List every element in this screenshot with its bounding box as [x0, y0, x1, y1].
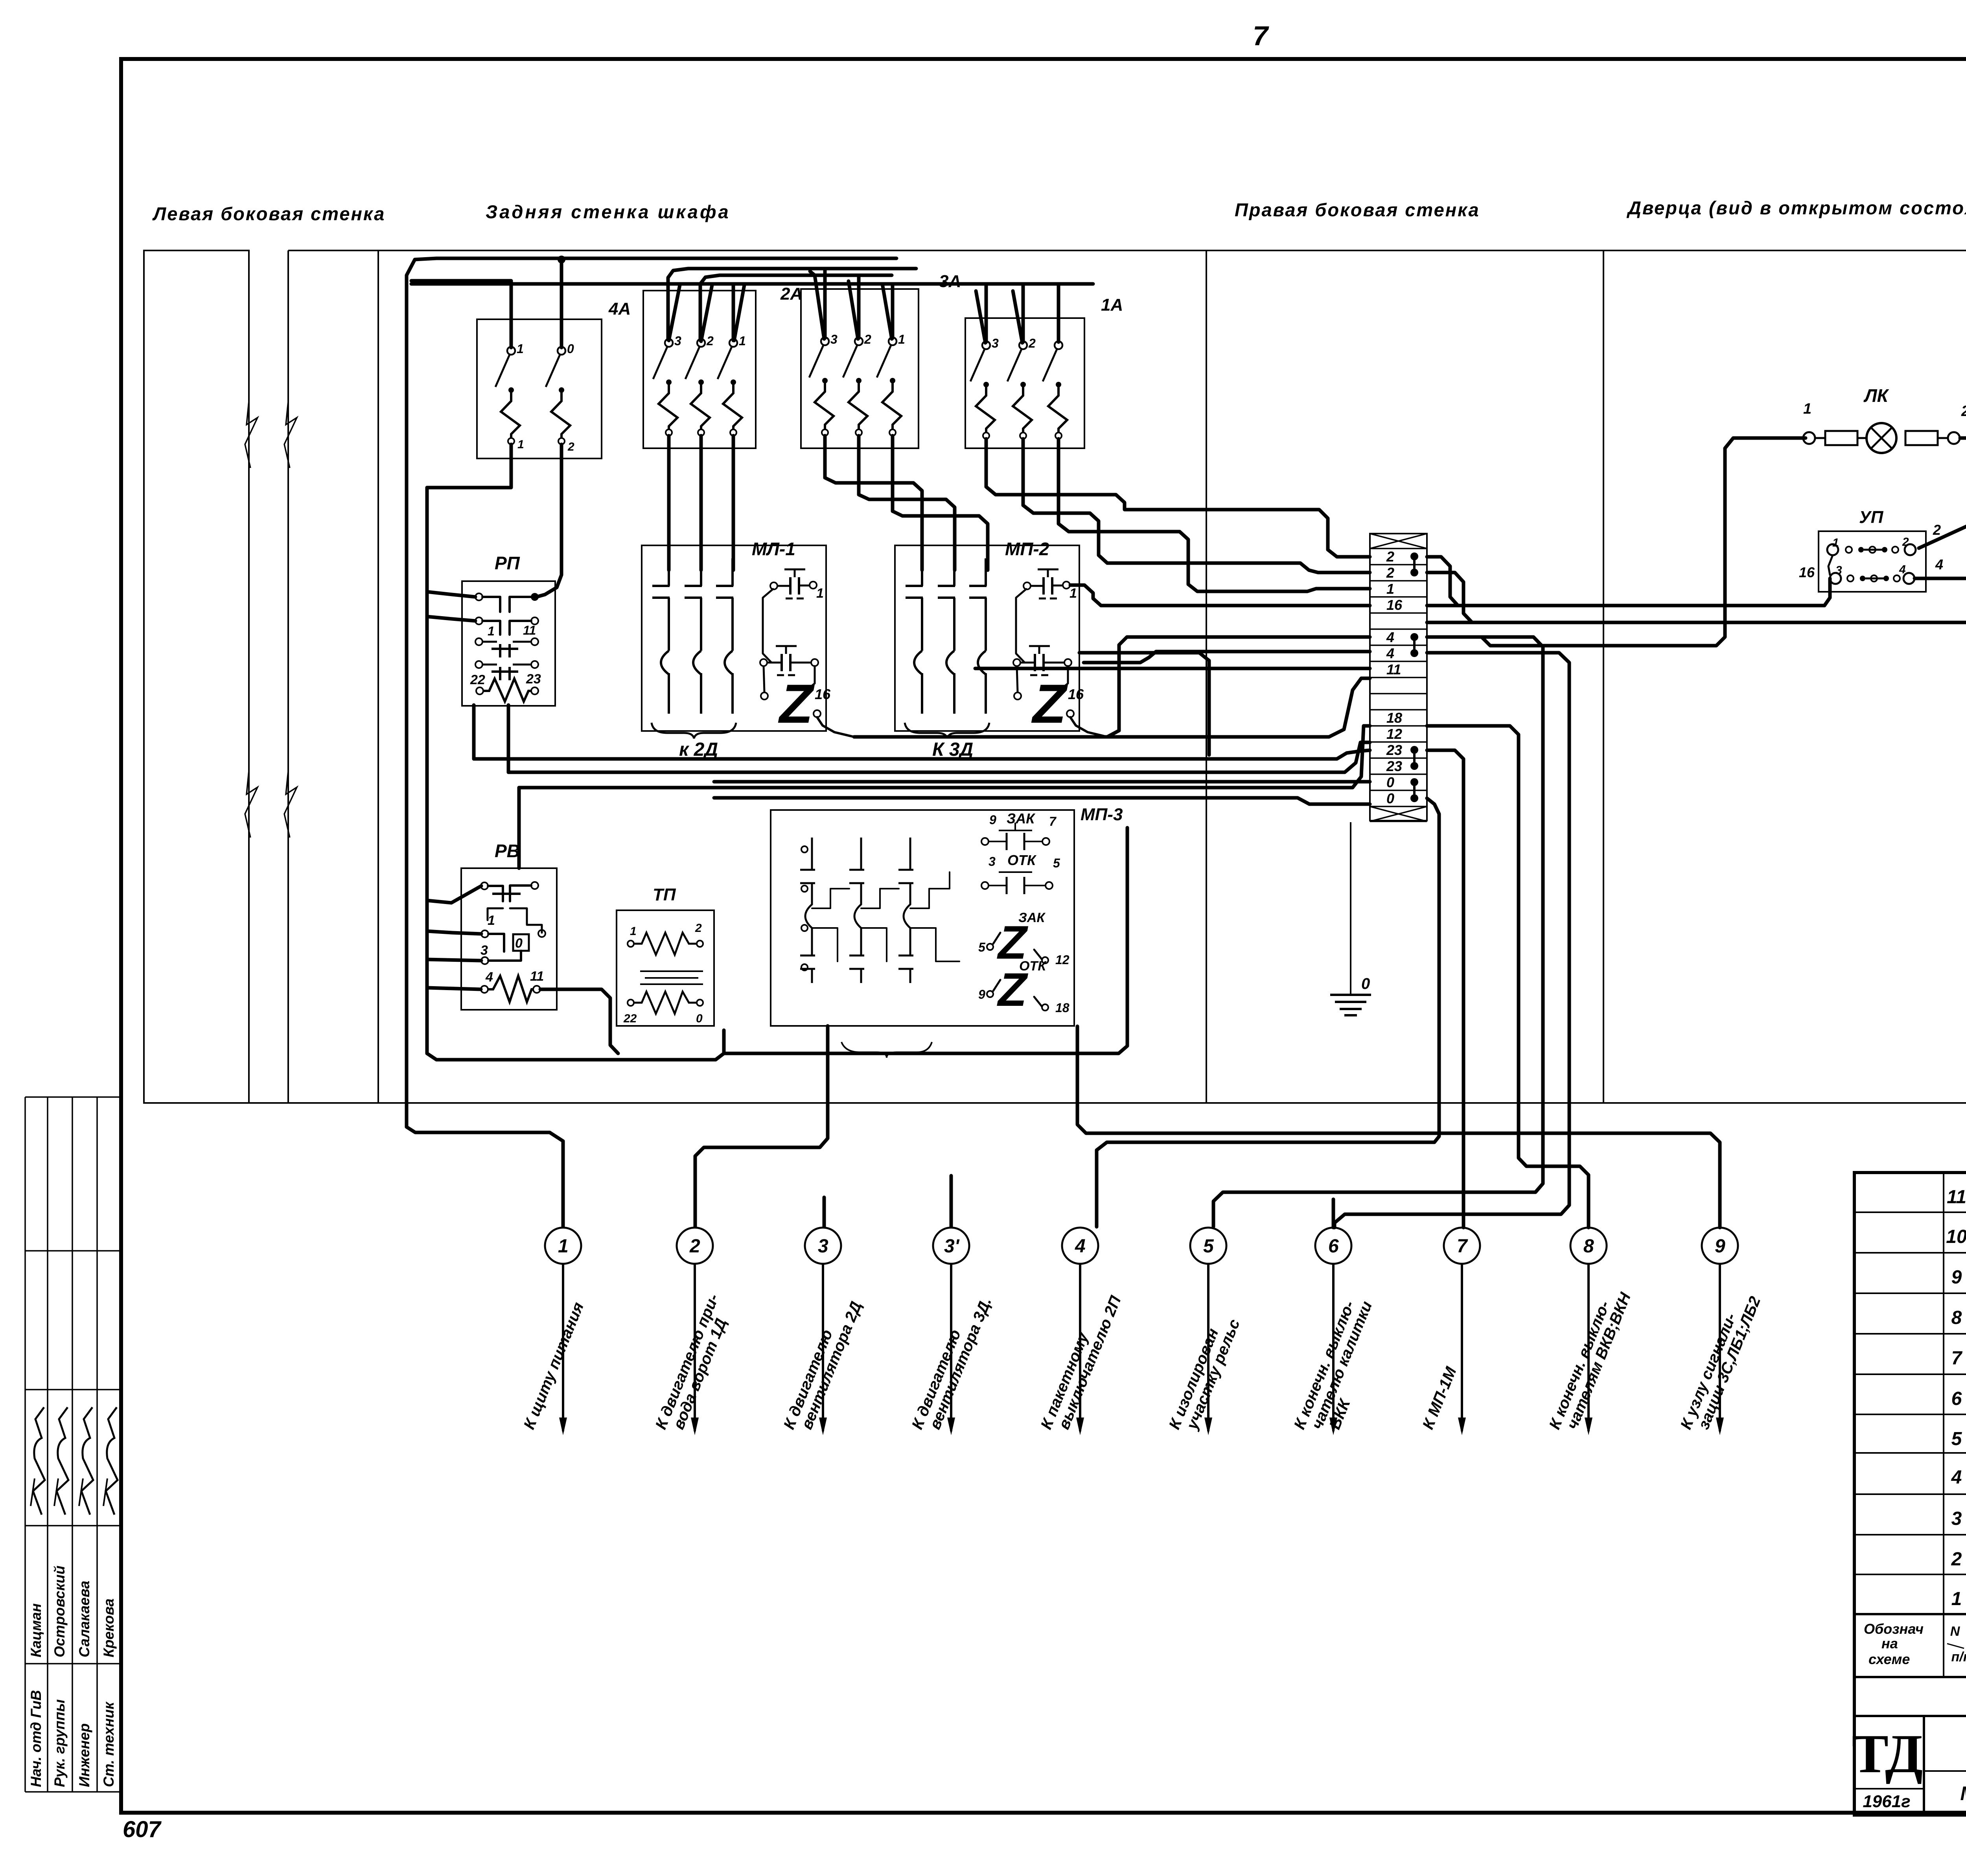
wire 3A-3 to MP2 — [825, 436, 922, 570]
panels top line — [288, 250, 1966, 251]
svg-text:3: 3 — [992, 336, 999, 350]
wire strip row2 hook — [1427, 557, 1457, 605]
svg-text:2: 2 — [567, 440, 574, 453]
wire RP to bus — [472, 705, 476, 759]
node 8 cable circle — [1570, 1228, 1607, 1264]
panel edge break mark — [245, 401, 258, 468]
svg-text:0: 0 — [1361, 975, 1370, 992]
wire 2A-2 to ML1 — [700, 436, 703, 570]
node 3' lead with arrow — [950, 1264, 952, 1431]
wire 2A pole3 slant — [669, 285, 680, 341]
svg-text:3А: 3А — [939, 272, 961, 291]
wire 4A pole0 feed — [560, 260, 563, 348]
node 6 lead with arrow — [1332, 1264, 1335, 1431]
node 4 cable circle — [1062, 1228, 1098, 1264]
svg-text:7: 7 — [1253, 20, 1269, 51]
svg-text:Дверца (вид в открытом состоян: Дверца (вид в открытом состоянии) — [1626, 197, 1966, 218]
svg-text:УП: УП — [1859, 508, 1884, 527]
RV weave elbow — [510, 908, 542, 933]
circuit breaker 2A — [643, 291, 756, 448]
svg-text:1961г: 1961г — [1863, 1792, 1910, 1811]
contactor МЛ-1 — [642, 545, 826, 731]
svg-text:4: 4 — [1951, 1467, 1962, 1488]
svg-text:10: 10 — [1946, 1226, 1966, 1247]
svg-text:22: 22 — [623, 1012, 637, 1025]
bus to strip bottom right — [724, 828, 1127, 1053]
wire 4A pole1 feed — [411, 281, 511, 348]
svg-text:1: 1 — [739, 334, 746, 348]
wire 1A-2 to strip row 2b — [1023, 439, 1370, 573]
wire bus to RV 4 — [427, 988, 481, 989]
wire bus to RP r2 — [427, 617, 475, 621]
svg-text:5: 5 — [1053, 856, 1060, 870]
svg-text:607: 607 — [123, 1817, 162, 1842]
svg-text:4: 4 — [1075, 1236, 1086, 1257]
svg-text:ТП: ТП — [653, 885, 676, 904]
svg-text:МП-2: МП-2 — [1005, 539, 1049, 559]
TP core line — [645, 977, 698, 979]
node 3 lead with arrow — [822, 1264, 824, 1431]
brace under MP-3 — [841, 1042, 932, 1058]
wire bus to RP r1 — [427, 592, 475, 597]
svg-text:0: 0 — [1386, 790, 1394, 806]
svg-text:23: 23 — [1386, 758, 1402, 774]
svg-text:Монтажная схема шкафа управ: Монтажная схема шкафа управления ШУ — [1960, 1782, 1966, 1804]
svg-text:МП-3: МП-3 — [1081, 805, 1123, 824]
title divider main — [1924, 1770, 1966, 1772]
svg-text:4: 4 — [1386, 629, 1394, 645]
svg-text:9: 9 — [1951, 1267, 1962, 1288]
svg-text:1: 1 — [517, 342, 524, 356]
svg-text:8: 8 — [1951, 1307, 1962, 1328]
wire strip to node 5 — [1213, 637, 1543, 1227]
svg-text:16: 16 — [1068, 686, 1084, 702]
wire 3A-2 to MP2 — [859, 436, 955, 570]
wire 3A pole1 slant — [882, 284, 892, 339]
svg-text:5: 5 — [978, 940, 986, 954]
wire strip row2b hook — [1427, 573, 1471, 622]
RV latch Yu — [513, 934, 529, 951]
svg-text:1: 1 — [558, 1236, 569, 1257]
TP secondary resistor — [634, 992, 697, 1014]
brace К 3Д — [905, 723, 989, 738]
wire 2A pole1 slant — [734, 285, 744, 341]
svg-text:к 2Д: к 2Д — [679, 739, 718, 760]
wire stub to node 3p — [950, 1176, 953, 1227]
wire strip to node 7 — [1427, 750, 1463, 1228]
svg-text:6: 6 — [1951, 1388, 1962, 1409]
contactor MP-3 — [771, 810, 1074, 1026]
svg-text:16: 16 — [1799, 564, 1815, 580]
wire 4A bottom 1 — [427, 444, 511, 488]
bus row18 — [519, 726, 1370, 788]
svg-text:23: 23 — [526, 672, 541, 687]
back wall panel left edge — [287, 250, 289, 1103]
wire 2A-3 to ML1 — [667, 436, 671, 570]
svg-text:Z: Z — [778, 673, 815, 735]
wire MP2 coil down — [1079, 653, 1209, 755]
TP core line — [640, 983, 703, 985]
svg-text:Рук. группы: Рук. группы — [52, 1699, 68, 1787]
panel edge break mark — [245, 771, 258, 838]
MP-3 inner link — [910, 872, 950, 908]
svg-text:22: 22 — [470, 672, 485, 687]
svg-text:1: 1 — [630, 925, 637, 938]
wire bus to RV 1 — [427, 931, 481, 934]
wire main trunk left+top — [407, 258, 896, 1127]
svg-text:1: 1 — [898, 332, 905, 346]
svg-text:Задняя стенка шкафа: Задняя стенка шкафа — [486, 201, 731, 222]
wire 1A pole3 feed — [985, 284, 988, 342]
svg-text:К 3Д: К 3Д — [932, 739, 973, 760]
TD cell divider — [1854, 1788, 1924, 1789]
svg-text:Ст. техник: Ст. техник — [101, 1701, 117, 1787]
svg-text:1: 1 — [816, 586, 824, 601]
packet switch UP — [1819, 531, 1926, 592]
wire bus683 from 2A3 — [668, 269, 916, 340]
svg-text:2А: 2А — [780, 284, 803, 304]
door left vertical — [1723, 562, 1727, 608]
signature block — [24, 1097, 26, 1792]
svg-text:9: 9 — [978, 987, 985, 1002]
svg-text:12: 12 — [1055, 953, 1070, 967]
circuit breaker 1A — [965, 318, 1084, 448]
svg-text:Салакаева: Салакаева — [76, 1581, 92, 1657]
svg-text:ОТК: ОТК — [1007, 852, 1037, 868]
svg-text:6: 6 — [1328, 1236, 1339, 1257]
svg-text:3: 3 — [989, 854, 996, 869]
contactor МП-2 — [895, 545, 1079, 731]
junction trunk/4A — [558, 256, 565, 263]
signature scribble — [33, 1407, 45, 1515]
svg-text:2: 2 — [1933, 522, 1941, 538]
MP-3 inner link — [861, 889, 899, 908]
MP-3 inner link — [910, 928, 959, 961]
wire 2A pole2 slant — [701, 285, 712, 341]
strip jumper — [1410, 633, 1418, 641]
strip jumper — [1410, 746, 1418, 754]
svg-text:N: N — [1950, 1624, 1960, 1639]
wire vertical 1086 — [425, 488, 429, 1053]
lamp terminal 2 — [1948, 432, 1960, 444]
svg-text:3': 3' — [944, 1236, 960, 1257]
wire strip row16 to UP 3 — [1427, 578, 1830, 606]
wire 2A-1 to ML1 — [732, 436, 735, 570]
node 5 lead with arrow — [1207, 1264, 1209, 1431]
transformer TP — [617, 910, 714, 1026]
svg-text:Островский: Островский — [52, 1566, 68, 1657]
wire UP4 return to strip — [1427, 578, 1966, 622]
svg-text:РВ: РВ — [495, 841, 520, 861]
TP core line — [640, 970, 703, 972]
svg-text:Z: Z — [997, 963, 1029, 1016]
svg-text:11: 11 — [1947, 1187, 1966, 1208]
svg-text:2: 2 — [706, 334, 714, 348]
divider right side wall / door panel — [1603, 250, 1604, 1103]
title block TD cell right — [1923, 1716, 1925, 1815]
svg-text:0: 0 — [567, 342, 574, 356]
svg-text:4: 4 — [1935, 556, 1943, 573]
svg-text:2: 2 — [864, 332, 871, 346]
wire TP to strip row 0b — [714, 798, 1370, 804]
svg-text:0: 0 — [515, 936, 523, 951]
bus row12 — [508, 742, 1370, 772]
svg-text:1: 1 — [1386, 581, 1394, 597]
svg-text:9: 9 — [989, 813, 996, 827]
svg-text:18: 18 — [1386, 710, 1402, 726]
wire 2A pole1 drop — [732, 285, 735, 341]
wire 3A-1 to MP2 — [893, 436, 988, 570]
wire 3A pole3 drop — [823, 270, 827, 338]
MP-3 inner link — [812, 928, 838, 961]
wire MP2 aux to strip row16 — [1070, 585, 1370, 606]
wire 1A pole2 feed — [1022, 284, 1025, 342]
bus row23 — [474, 750, 1370, 759]
svg-text:7: 7 — [1457, 1236, 1468, 1257]
svg-text:4А: 4А — [608, 299, 631, 318]
wire stub node 6 upper — [1332, 1199, 1335, 1228]
wire 1A pole2 slant — [1013, 291, 1022, 343]
svg-text:на: на — [1881, 1635, 1898, 1651]
svg-text:Z: Z — [1031, 673, 1068, 735]
svg-text:11: 11 — [530, 969, 544, 984]
wire to strip row 4 — [1107, 637, 1370, 737]
svg-text:7: 7 — [1951, 1348, 1963, 1369]
wire 3A pole3 slant — [810, 271, 824, 339]
UP internal link — [1828, 555, 1833, 575]
MP-3 inner link — [812, 889, 849, 908]
svg-text:РП: РП — [495, 553, 520, 573]
svg-text:Правая боковая стенка: Правая боковая стенка — [1235, 199, 1480, 220]
svg-text:23: 23 — [1386, 742, 1402, 758]
node 6 cable circle — [1315, 1228, 1351, 1264]
svg-text:1: 1 — [1803, 401, 1811, 417]
wire bus 722 long — [411, 282, 1093, 286]
svg-text:2: 2 — [695, 922, 702, 935]
svg-text:0: 0 — [1386, 774, 1394, 790]
wire trunk to node 1 — [407, 1127, 563, 1227]
wire 1A pole3 slant — [976, 291, 985, 343]
node 8 lead with arrow — [1587, 1264, 1590, 1431]
circuit breaker 3A — [801, 289, 919, 448]
panels bottom line — [144, 1102, 1966, 1104]
node 5 cable circle — [1190, 1228, 1226, 1264]
RP coil resistor — [476, 687, 483, 694]
svg-text:2: 2 — [1961, 403, 1966, 420]
svg-text:11: 11 — [1386, 661, 1401, 677]
svg-text:ТД: ТД — [1852, 1723, 1923, 1784]
node 3 cable circle — [805, 1228, 841, 1264]
wire bus to RV 3 — [427, 959, 481, 961]
svg-text:11: 11 — [523, 623, 536, 637]
signature scribble — [81, 1407, 93, 1515]
wire MP3 brace to node 2 — [695, 1026, 828, 1227]
svg-text:3: 3 — [674, 334, 681, 348]
node 3' cable circle — [933, 1228, 969, 1264]
svg-text:3: 3 — [830, 332, 838, 346]
node 9 lead with arrow — [1719, 1264, 1721, 1431]
svg-text:2: 2 — [1386, 549, 1394, 565]
svg-text:Крекова: Крекова — [101, 1598, 117, 1657]
wire ML1 coil to strip — [854, 678, 1370, 737]
wire bus700 from 2A2 — [700, 275, 892, 341]
svg-text:5: 5 — [1203, 1236, 1214, 1257]
svg-text:МЛ-1: МЛ-1 — [752, 539, 795, 559]
bus lower left — [427, 1030, 724, 1060]
wire 3A pole1 drop — [891, 284, 895, 338]
svg-text:Нач. отд ГиВ: Нач. отд ГиВ — [28, 1690, 44, 1787]
RV weave elbow — [488, 908, 503, 920]
wire 1A pole1 feed — [1057, 284, 1060, 342]
svg-text:1: 1 — [1951, 1589, 1962, 1609]
svg-text:2: 2 — [689, 1236, 700, 1257]
svg-text:4: 4 — [485, 970, 493, 985]
wire strip to node 4 — [1097, 798, 1439, 1227]
svg-text:2: 2 — [1386, 565, 1394, 581]
node 2 cable circle — [677, 1228, 713, 1264]
panel edge break mark — [284, 401, 297, 468]
wire 3A pole2 drop — [857, 276, 861, 338]
svg-text:Кацман: Кацман — [28, 1603, 44, 1657]
wire TP to strip row 0 — [714, 780, 1370, 784]
wire strip to ground — [1350, 822, 1351, 995]
svg-text:1: 1 — [488, 624, 495, 638]
relay RP — [462, 581, 555, 706]
node 1 cable circle — [545, 1228, 581, 1264]
wire strip to node 6 — [1335, 653, 1569, 1228]
node 1 lead with arrow — [562, 1264, 564, 1431]
wire RV to bus — [517, 788, 521, 868]
svg-text:Обознач: Обознач — [1864, 1621, 1924, 1637]
svg-text:3: 3 — [1951, 1508, 1962, 1529]
svg-text:9: 9 — [1715, 1236, 1725, 1257]
svg-text:1: 1 — [517, 438, 524, 451]
svg-text:Инженер: Инженер — [76, 1723, 92, 1787]
wire 1A-3 to strip row 2 — [986, 439, 1370, 557]
svg-text:ЗАК: ЗАК — [1007, 810, 1036, 827]
node 4 lead with arrow — [1079, 1264, 1081, 1431]
node 7 cable circle — [1444, 1228, 1480, 1264]
wire lamp left from strip row4 — [1427, 438, 1806, 646]
signature scribble — [57, 1407, 68, 1515]
wire 1A-1 to strip row 1 — [1058, 439, 1370, 591]
svg-text:Левая боковая стенка: Левая боковая стенка — [152, 203, 385, 224]
strip jumper — [1410, 552, 1418, 560]
wire stub to node 3 — [823, 1197, 826, 1227]
svg-text:12: 12 — [1386, 726, 1402, 742]
svg-text:ЛК: ЛК — [1863, 385, 1889, 406]
svg-text:схеме: схеме — [1868, 1651, 1910, 1667]
svg-text:8: 8 — [1583, 1236, 1594, 1257]
svg-text:0: 0 — [696, 1012, 703, 1025]
svg-text:п/п: п/п — [1951, 1650, 1966, 1664]
svg-text:3: 3 — [818, 1236, 828, 1257]
svg-text:1: 1 — [1070, 586, 1077, 601]
lamp terminal 1 — [1803, 432, 1815, 444]
lamp fuse left — [1825, 431, 1857, 445]
wire to strip row 11 — [975, 667, 1370, 670]
wire RP to bus2 — [507, 705, 510, 772]
lamp LK — [1867, 423, 1896, 453]
circuit breaker 4A — [477, 319, 602, 458]
wire 3A pole2 slant — [849, 281, 858, 339]
strip jumper — [1410, 778, 1418, 786]
MP-3 inner link — [861, 928, 887, 961]
wire RV 11 to bus — [540, 989, 618, 1053]
ground symbol — [1330, 994, 1371, 996]
wire bus to RV r1 — [427, 886, 481, 903]
node 2 lead with arrow — [694, 1264, 696, 1431]
panel edge break mark — [284, 771, 297, 838]
svg-text:18: 18 — [1055, 1001, 1070, 1015]
divider back wall / right side wall — [1206, 250, 1207, 1103]
node 7 lead with arrow — [1461, 1264, 1463, 1431]
svg-text:1А: 1А — [1101, 295, 1123, 315]
back wall inner edge line — [377, 250, 379, 1103]
svg-text:1: 1 — [488, 913, 495, 928]
wire MP3 to node 9 — [1077, 1026, 1720, 1228]
terminal strip (reika zazhimov) — [1370, 534, 1427, 821]
svg-text:5: 5 — [1951, 1429, 1962, 1449]
svg-text:2: 2 — [1028, 336, 1036, 350]
signature scribble — [106, 1407, 118, 1515]
wire 4A bottom 2 to RP — [538, 444, 561, 596]
svg-text:16: 16 — [1386, 597, 1403, 613]
brace к 2Д — [652, 723, 736, 738]
svg-text:4: 4 — [1386, 645, 1394, 661]
wire lamp right to UP — [1919, 438, 1966, 548]
svg-text:2: 2 — [1951, 1549, 1962, 1570]
lamp fuse right — [1905, 431, 1938, 445]
wire to strip row 4b — [1084, 652, 1370, 663]
left side wall panel outline — [144, 250, 249, 1103]
node 9 cable circle — [1702, 1228, 1738, 1264]
relay RV — [461, 868, 557, 1010]
specification table — [1854, 1173, 1966, 1815]
svg-text:3: 3 — [480, 943, 488, 958]
wire strip to node 8 — [1427, 726, 1589, 1228]
svg-text:16: 16 — [815, 686, 831, 702]
svg-text:7: 7 — [1049, 814, 1057, 828]
